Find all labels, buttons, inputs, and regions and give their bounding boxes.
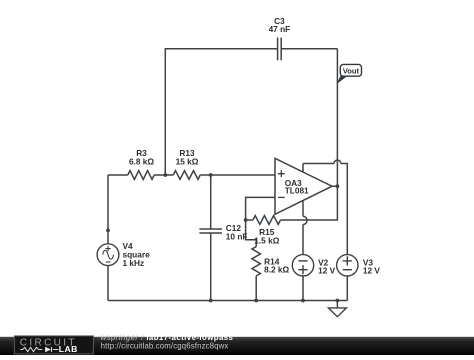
svg-text:LAB: LAB xyxy=(59,344,78,354)
svg-text:http://circuitlab.com/cgq6sfnz: http://circuitlab.com/cgq6sfnzc8qwx xyxy=(101,342,229,351)
svg-text:15 kΩ: 15 kΩ xyxy=(176,157,199,167)
svg-text:1.5 kΩ: 1.5 kΩ xyxy=(254,235,279,245)
svg-text:wspringer / lab17-active-lowpa: wspringer / lab17-active-lowpass xyxy=(101,333,234,342)
svg-text:6.8 kΩ: 6.8 kΩ xyxy=(129,157,154,167)
svg-text:10 nF: 10 nF xyxy=(226,232,248,242)
svg-text:12 V: 12 V xyxy=(318,266,336,276)
svg-text:TL081: TL081 xyxy=(285,185,309,195)
svg-text:1 kHz: 1 kHz xyxy=(123,258,145,268)
svg-text:Vout: Vout xyxy=(343,67,360,76)
svg-text:8.2 kΩ: 8.2 kΩ xyxy=(264,265,289,275)
svg-text:47 nF: 47 nF xyxy=(269,24,291,34)
svg-text:12 V: 12 V xyxy=(363,266,381,276)
